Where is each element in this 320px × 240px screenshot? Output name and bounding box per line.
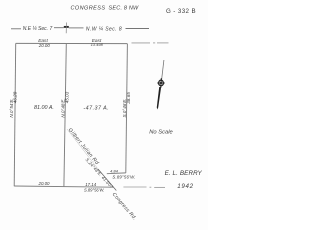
svg-text:SEC. 8 NW: SEC. 8 NW	[109, 6, 140, 12]
svg-text:1942: 1942	[177, 183, 194, 190]
svg-text:46.28: 46.28	[13, 91, 18, 103]
svg-text:17.14: 17.14	[85, 182, 97, 187]
svg-text:G - 332 B: G - 332 B	[166, 8, 196, 15]
svg-text:S.89°56'W.: S.89°56'W.	[84, 188, 105, 193]
svg-text:E. L. BERRY: E. L. BERRY	[165, 170, 203, 177]
svg-text:N.E ¼ Sec. 7: N.E ¼ Sec. 7	[23, 26, 53, 32]
svg-text:38.65: 38.65	[126, 92, 131, 104]
svg-text:No Scale: No Scale	[149, 129, 173, 135]
svg-text:4.84: 4.84	[110, 169, 119, 174]
svg-text:S.89°56'W.: S.89°56'W.	[112, 174, 135, 179]
svg-text:-47.37 A.: -47.37 A.	[83, 105, 109, 111]
svg-text:20.00: 20.00	[38, 43, 51, 48]
svg-text:13.498: 13.498	[91, 42, 104, 47]
svg-text:81.00 A.: 81.00 A.	[34, 105, 54, 111]
svg-text:20.00: 20.00	[38, 181, 51, 186]
svg-text:N.W ¼ Sec. 8: N.W ¼ Sec. 8	[86, 27, 122, 33]
svg-text:45.03: 45.03	[64, 91, 69, 103]
svg-text:CONGRESS: CONGRESS	[70, 6, 105, 12]
